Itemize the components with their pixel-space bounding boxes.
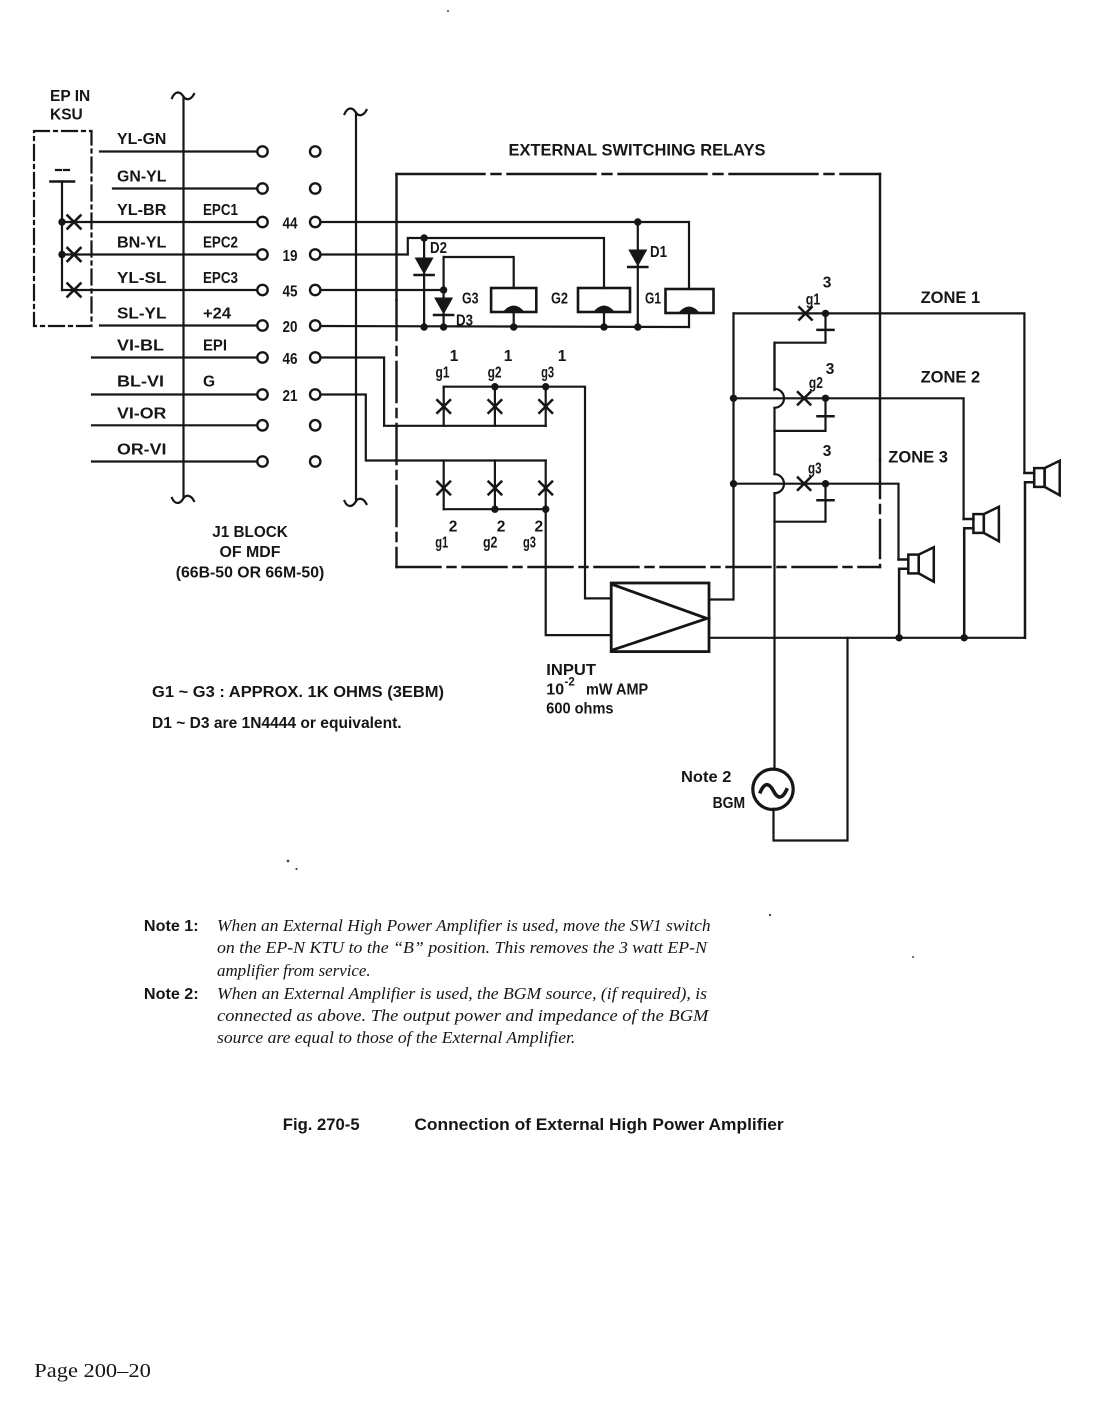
wire VI-OR [92,424,257,426]
amp output bus [709,637,1024,639]
wire G3 top feed [444,257,514,288]
page number [34,1360,151,1382]
wire EPC3 row 45 [321,289,444,291]
BGM return wire [774,638,848,841]
svg-text:1: 1 [504,348,513,365]
wire EPC2 row 19 to G2/D2 [321,238,604,288]
junction dot D2 top [420,234,427,241]
svg-text:VI-BL: VI-BL [117,338,164,355]
contact group 1 top bus [444,387,612,599]
junction dot zone3 [822,480,829,487]
svg-text:BN-YL: BN-YL [117,235,166,252]
junction dot zone2 [822,395,829,402]
svg-text:g1: g1 [806,292,821,309]
speaker zone2 [964,507,999,638]
diode D1 [628,222,647,327]
wire D3 branch vertical [443,257,445,327]
svg-text:Connection of External High Po: Connection of External High Power Amplif… [414,1115,784,1134]
svg-text:600 ohms: 600 ohms [546,701,613,718]
svg-text:VI-OR: VI-OR [117,406,166,423]
svg-text:46: 46 [283,351,298,368]
svg-text:BL-VI: BL-VI [117,374,164,391]
terminal circles column 2 [310,146,320,466]
svg-text:G2: G2 [551,291,568,308]
zone 1 wire [734,313,1025,473]
junction dot zone1 [822,310,829,317]
wire SL-YL [100,324,257,326]
wire YL-SL [62,289,257,291]
scan specks [287,10,914,958]
svg-text:GN-YL: GN-YL [117,169,166,186]
figure caption [283,1115,784,1134]
svg-text:3: 3 [823,443,832,460]
svg-text:OR-VI: OR-VI [117,442,166,459]
svg-text:mW AMP: mW AMP [586,682,648,699]
wire OR-VI [92,460,257,462]
svg-text:amplifier from service.: amplifier from service. [217,961,371,980]
external relay dash-dot box [397,174,881,567]
svg-text:2: 2 [449,519,458,536]
G1 G3 note [152,684,444,732]
relay coil G3 [491,288,536,327]
svg-text:YL-BR: YL-BR [117,202,166,219]
svg-text:EXTERNAL SWITCHING RELAYS: EXTERNAL SWITCHING RELAYS [509,142,766,160]
svg-text:2: 2 [497,519,506,536]
svg-text:3: 3 [826,361,835,378]
contact X marks group 2 [437,482,552,495]
svg-text:ZONE 2: ZONE 2 [921,369,981,387]
wire YL-GN [100,150,257,152]
svg-text:g1: g1 [435,535,448,552]
svg-text:g3: g3 [541,365,554,382]
svg-text:+24: +24 [203,306,231,323]
wire G row 21 to group2 top bus [321,395,546,461]
svg-text:21: 21 [283,388,298,405]
svg-text:(66B-50 OR 66M-50): (66B-50 OR 66M-50) [176,565,325,582]
svg-text:YL-SL: YL-SL [117,270,166,287]
J1 BLOCK OF MDF label [176,524,325,582]
junction dots [491,506,498,513]
svg-text:Note 1:: Note 1: [144,918,199,935]
EP IN KSU dash-dot box [34,131,92,326]
Note 2 paragraph [144,984,710,1047]
svg-text:EP IN: EP IN [50,88,90,105]
speaker zone3 [899,547,934,638]
svg-text:D1: D1 [650,244,667,261]
svg-text:D1 ~ D3 are 1N4444 or equivale: D1 ~ D3 are 1N4444 or equivalent. [152,715,402,732]
svg-text:44: 44 [283,216,298,233]
svg-text:SL-YL: SL-YL [117,306,166,323]
svg-text:on the EP-N KTU to the “B” pos: on the EP-N KTU to the “B” position. Thi… [217,938,708,957]
svg-text:g1: g1 [436,365,450,382]
zone1 tick branch [775,313,834,390]
svg-text:OF MDF: OF MDF [220,544,281,561]
svg-text:source are equal to those of t: source are equal to those of the Externa… [217,1028,575,1047]
BGM common vertical with hops [775,343,785,770]
svg-text:g3: g3 [808,461,822,478]
wire BL-VI [92,393,257,395]
svg-text:ZONE 1: ZONE 1 [921,289,981,307]
MDF cable line 1 [172,92,194,503]
EXTERNAL SWITCHING RELAYS title [509,142,766,160]
junction dots on zone common left [730,395,737,402]
diode D2 [415,238,434,327]
contact X zone g2 [798,392,810,404]
svg-text:19: 19 [283,248,298,265]
MDF cable line 2 [345,108,367,506]
contact verticals group 2 [443,461,445,510]
svg-text:G1: G1 [645,291,661,308]
junction dots on +24 bus [420,323,427,330]
contact X marks group 1 [437,400,552,413]
svg-text:Note 2:: Note 2: [144,986,199,1003]
Note 1 paragraph [144,916,711,980]
Note 2 / BGM labels [681,769,745,812]
svg-text:BGM: BGM [713,795,746,812]
zone 3 wire [734,484,899,560]
svg-text:D2: D2 [430,240,447,257]
svg-text:EPI: EPI [203,338,227,355]
wire EPI row 46 to group1 bottom bus [321,358,546,426]
svg-text:J1 BLOCK: J1 BLOCK [212,524,288,541]
ZONE labels [888,289,980,467]
svg-text:D3: D3 [456,313,473,330]
svg-text:When an External High Power Am: When an External High Power Amplifier is… [217,916,711,935]
svg-text:G3: G3 [462,291,479,308]
svg-text:g2: g2 [488,365,502,382]
contact group 1 labels [436,348,567,382]
junction dot [58,218,65,225]
svg-text:KSU: KSU [50,107,83,124]
contact X YL-SL [68,284,81,297]
svg-text:YL-GN: YL-GN [117,131,166,148]
svg-text:When an External Amplifier is: When an External Amplifier is used, the … [217,984,707,1003]
svg-text:Page 200–20: Page 200–20 [34,1360,151,1382]
svg-text:3: 3 [823,275,832,292]
contact verticals group 1 [443,387,445,426]
contact X YL-BR [68,216,81,229]
speaker zone1 [1024,461,1059,638]
junction dot [58,251,65,258]
svg-text:g2: g2 [483,535,498,552]
svg-text:G: G [203,374,215,391]
junction dot D1 top [634,218,641,225]
svg-text:-2: -2 [565,677,575,689]
zone contact labels [806,275,835,478]
svg-text:EPC1: EPC1 [203,202,238,219]
contact group 2 labels [435,519,543,552]
svg-text:Note 2: Note 2 [681,769,731,786]
amplifier box [611,583,709,652]
wire YL-BR [62,221,257,223]
svg-text:EPC2: EPC2 [203,235,238,252]
junction dot row45/D3 [440,286,447,293]
zone2 tick branch [775,398,834,431]
svg-text:EPC3: EPC3 [203,270,238,287]
svg-text:Fig. 270-5: Fig. 270-5 [283,1115,360,1134]
relay coil G1 [666,289,714,327]
pin numbers 44 19 45 20 46 21 [283,216,298,406]
svg-text:1: 1 [450,348,459,365]
svg-text:g3: g3 [523,535,536,552]
zone3 tick branch [775,484,834,522]
EP IN KSU label [50,88,90,124]
contact X zone g3 [798,478,810,490]
wire BN-YL [62,253,257,255]
wire EPC1 row 44 to G1/D1 [321,222,689,289]
wire +24 bus row 20 [321,326,689,327]
svg-text:G1 ~ G3 : APPROX. 1K OHMS (3: G1 ~ G3 : APPROX. 1K OHMS (3EBM) [152,684,444,701]
INPUT labels [546,662,648,718]
zone 2 wire [734,398,964,519]
svg-text:g2: g2 [809,375,823,392]
svg-text:1: 1 [558,348,567,365]
svg-text:2: 2 [534,519,543,536]
wire color labels [117,131,238,459]
BGM source circle [753,769,793,809]
svg-text:ZONE 3: ZONE 3 [888,449,948,467]
terminal circles column 1 [257,146,267,466]
svg-text:45: 45 [283,284,298,301]
junction dots on output bus [895,634,902,641]
svg-text:connected as above. The outpu: connected as above. The output power and… [217,1006,710,1025]
battery symbol [51,170,75,290]
diode D3 [434,298,453,316]
relay coil G2 [578,288,630,327]
wire VI-BL [92,356,257,358]
contact group 2 bottom bus to amp [444,509,612,635]
wire GN-YL [113,187,257,189]
svg-text:10: 10 [546,682,564,699]
junction dots [491,383,498,390]
contact X zone g1 [799,307,811,319]
amp output upper to zone common [709,313,734,599]
contact X BN-YL [68,248,81,261]
svg-text:20: 20 [283,319,298,336]
